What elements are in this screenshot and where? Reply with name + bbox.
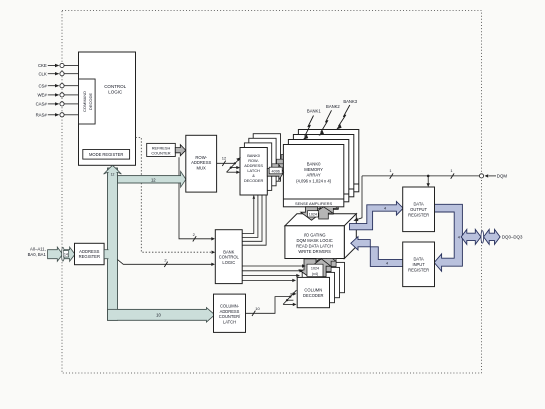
block: 3D I/O GATING box [285, 214, 356, 259]
label: 4 (read bus) [384, 207, 386, 211]
block: BANK0 ROW-ADDRESS LATCH & DECODER (front) [240, 148, 267, 196]
label: 1024 (sense amp bus) [308, 211, 319, 217]
svg-text:WRITE DRIVERS: WRITE DRIVERS [298, 249, 331, 254]
svg-text:BANK0: BANK0 [307, 161, 321, 166]
wire CLK input [38, 71, 78, 76]
svg-text:READ DATA LATCH: READ DATA LATCH [296, 244, 333, 249]
svg-text:LOGIC: LOGIC [222, 260, 235, 265]
block: MODE REGISTER [83, 150, 130, 160]
svg-text:10: 10 [255, 306, 260, 311]
svg-text:14: 14 [64, 253, 68, 257]
bus: address input arrow A0-A11 [28, 247, 75, 262]
bus: read data lavender bus IO gating to data output register [350, 201, 404, 229]
wire: DQM junction to data output register [427, 175, 430, 187]
svg-text:CKE: CKE [38, 63, 47, 68]
block: BANK0 MEMORY ARRAY (front) [283, 145, 343, 207]
svg-text:DQ0–DQ3: DQ0–DQ3 [502, 235, 523, 240]
svg-text:I/O GATING: I/O GATING [304, 233, 326, 238]
block: DATA INPUT REGISTER [403, 242, 435, 287]
block: memory array bank1 [288, 140, 348, 202]
wire: bank control to row-address latches (4 lines) [242, 195, 266, 245]
arrow: I/O gating to sense amps (up) [314, 207, 333, 219]
svg-text:INPUT: INPUT [412, 262, 425, 267]
svg-text:BANK1: BANK1 [307, 109, 321, 114]
wire: 10-bit column address to column decoders [246, 290, 297, 316]
wire WE# input [37, 93, 78, 98]
block: ROW-ADDRESS MUX [186, 135, 217, 192]
wire CKE input [38, 63, 79, 68]
wire CS# input [38, 83, 78, 88]
pad lens on boundary at DQ [481, 231, 484, 244]
svg-text:MUX: MUX [197, 165, 207, 170]
label: BANK1 with pointer [303, 109, 322, 140]
label: 4 (DQ bus) [458, 235, 460, 239]
svg-text:12: 12 [151, 177, 156, 182]
block: COMMAND DECODE [79, 79, 96, 124]
svg-text:WE#: WE# [37, 93, 47, 98]
svg-text:A0–A11,: A0–A11, [30, 247, 46, 252]
wire: 2-bit bank address to bank control (upper) [179, 157, 215, 241]
bus: DQ lavender bus (register to pads) [434, 204, 462, 271]
svg-text:CLK: CLK [38, 71, 46, 76]
svg-text:SENSE AMPLIFIERS: SENSE AMPLIFIERS [295, 201, 333, 206]
block: ADDRESS REGISTER [75, 243, 105, 264]
svg-text:OUTPUT: OUTPUT [410, 207, 427, 212]
block: column decoder bank1 [302, 272, 334, 302]
wire: DQM drop to I/O gating [353, 176, 362, 221]
wire: 2-bit bank address to bank control (lower) [118, 257, 216, 267]
bus: teal address bus network [108, 168, 208, 320]
svg-text:CS#: CS# [38, 83, 47, 88]
block: column decoder bank3 (back) [312, 262, 344, 292]
block: row-address latch bank2 [249, 138, 276, 186]
block: memory array bank3 (back) [298, 130, 358, 192]
label: DQ0-DQ3 [502, 235, 523, 240]
svg-text:BANK3: BANK3 [343, 99, 357, 104]
arrow: IO gating / column decoder ghost arrows [304, 249, 341, 273]
block: row-address latch bank3 (back) [253, 134, 280, 182]
svg-text:BANK2: BANK2 [326, 104, 340, 109]
svg-text:12: 12 [222, 156, 227, 161]
svg-text:4: 4 [458, 235, 460, 239]
svg-text:COUNTER: COUNTER [151, 150, 170, 155]
svg-text:REGISTER: REGISTER [408, 212, 429, 217]
label: 4 (write bus) [386, 262, 388, 266]
svg-text:12: 12 [111, 172, 115, 176]
svg-text:CONTROL: CONTROL [104, 84, 126, 89]
bus: address register to vertical bus [104, 250, 109, 259]
svg-text:(x4): (x4) [312, 272, 318, 276]
svg-text:4: 4 [384, 207, 386, 211]
svg-text:4: 4 [386, 262, 388, 266]
block: memory array bank2 [293, 135, 353, 197]
arrow: I/O gating down to column decoder [299, 259, 321, 278]
block: row-address latch bank1 [244, 143, 271, 191]
svg-text:DATA: DATA [413, 201, 424, 206]
svg-text:CAS#: CAS# [36, 102, 48, 107]
svg-text:1024: 1024 [311, 267, 319, 271]
block: COLUMN DECODER (front) [297, 277, 329, 307]
bus arrow into MODE REGISTER [104, 165, 122, 177]
arrow: 4096 row lines (bank0) [267, 165, 283, 181]
svg-text:DATA: DATA [413, 256, 424, 261]
svg-text:ADDRESS: ADDRESS [79, 249, 99, 254]
wire: DQM input [362, 168, 507, 179]
svg-text:(4,096 x 1,024 x 4): (4,096 x 1,024 x 4) [296, 179, 332, 184]
svg-text:DECODER: DECODER [244, 178, 264, 183]
svg-text:COLUMN: COLUMN [304, 288, 322, 293]
arrow: sense amp / IO gating ghost arrows [306, 197, 343, 215]
block: REFRESH COUNTER [147, 143, 176, 156]
svg-text:LATCH: LATCH [223, 319, 236, 324]
wire RAS# input [36, 112, 79, 117]
arrow: 4096 ghost arrows (banks 1-3) [272, 151, 298, 176]
label: BANK3 with pointer [336, 99, 358, 130]
svg-text:MODE REGISTER: MODE REGISTER [89, 152, 123, 157]
block: CONTROL LOGIC [79, 52, 136, 165]
label: 1024 (x4) column bus [307, 264, 323, 276]
label: BANK2 with pointer [319, 104, 341, 136]
svg-text:1024: 1024 [309, 213, 317, 217]
wire: mux output 12 to row-address latches [217, 156, 241, 174]
arrow: column decoder up to I/O gating [312, 259, 331, 277]
block: COLUMN-ADDRESS COUNTER/LATCH [214, 294, 246, 332]
dashed chip boundary [62, 11, 482, 374]
svg-text:REGISTER: REGISTER [79, 254, 100, 259]
svg-text:DQM: DQM [497, 174, 508, 179]
wire: bank control to column decoders (4 lines) [242, 264, 306, 282]
bus: write data lavender bus data input register to IO gating [351, 237, 403, 267]
bus arrowhead into COLUMN-ADDRESS COUNTER/LATCH [156, 308, 215, 323]
block: BANK CONTROL LOGIC [215, 230, 242, 284]
block: column decoder bank2 [307, 267, 339, 297]
bus arrowhead into ROW-ADDRESS MUX [151, 171, 186, 187]
svg-text:MEMORY: MEMORY [304, 167, 323, 172]
wire dashed control to bank control logic [136, 138, 216, 254]
svg-text:10: 10 [156, 313, 161, 318]
svg-text:DQM MASK LOGIC: DQM MASK LOGIC [297, 238, 333, 243]
block: DATA OUTPUT REGISTER [403, 187, 435, 232]
svg-text:DECODE: DECODE [88, 93, 93, 110]
svg-text:BA0, BA1: BA0, BA1 [28, 252, 47, 257]
arrow: DQ bidirectional (inner) [461, 229, 481, 244]
block: SENSE AMPLIFIERS [283, 199, 343, 206]
svg-text:4096: 4096 [271, 169, 279, 173]
arrow: DQ bidirectional (outer) [484, 229, 501, 244]
svg-text:REGISTER: REGISTER [408, 267, 429, 272]
arrow: refresh counter to row-address mux (gray) [175, 145, 186, 156]
wire CAS# input [36, 102, 79, 107]
arrow: sense amps to I/O gating (1024 down) [301, 207, 323, 220]
svg-text:RAS#: RAS# [36, 112, 48, 117]
svg-text:COMMAND: COMMAND [82, 91, 87, 112]
svg-text:LOGIC: LOGIC [108, 90, 123, 95]
svg-text:DECODER: DECODER [303, 293, 324, 298]
svg-text:ARRAY: ARRAY [307, 172, 321, 177]
